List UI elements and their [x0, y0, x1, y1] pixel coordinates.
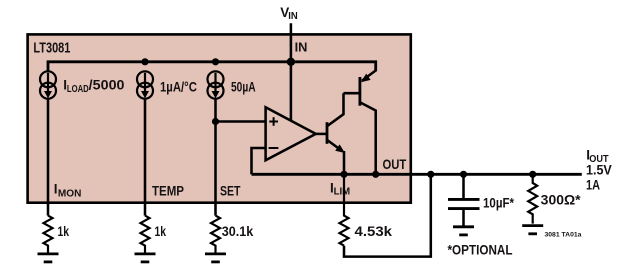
svg-text:10µF*: 10µF*	[483, 196, 515, 211]
wire IMON column	[47, 98, 50, 216]
wire SET column	[214, 98, 217, 216]
svg-text:IN: IN	[295, 39, 308, 54]
ground (R2)	[135, 254, 156, 262]
junction Q2 emitter / ILIM	[340, 171, 347, 178]
junction SET node	[212, 118, 219, 125]
junction top rail / I2	[141, 58, 148, 65]
svg-text:30.1k: 30.1k	[222, 224, 254, 239]
svg-text:50µA: 50µA	[231, 79, 256, 94]
svg-text:300Ω*: 300Ω*	[541, 193, 582, 208]
svg-text:*OPTIONAL: *OPTIONAL	[448, 243, 513, 258]
transistor Q2 NPN	[316, 93, 345, 174]
svg-text:4.53k: 4.53k	[355, 224, 393, 239]
pin ILIM label	[330, 181, 350, 198]
svg-text:1µA/°C: 1µA/°C	[160, 79, 197, 94]
node VIN label	[280, 5, 297, 22]
wire OUT rail	[252, 173, 582, 176]
wire op-amp inverting feedback	[252, 148, 266, 174]
label ILOAD/5000	[63, 78, 124, 95]
wire SET to op-amp + input	[216, 120, 266, 123]
resistor R1 1k (IMON)	[44, 216, 53, 253]
svg-text:1k: 1k	[155, 224, 167, 239]
current source I3 50µA	[208, 71, 224, 98]
junction top rail / I3	[212, 58, 219, 65]
resistor R4 4.53k (ILIM)	[340, 174, 349, 245]
wire top supply rail	[48, 62, 376, 72]
capacitor C1 10µF	[448, 174, 480, 225]
svg-text:TEMP: TEMP	[152, 184, 184, 199]
svg-text:OUT: OUT	[383, 157, 407, 172]
svg-text:I: I	[54, 182, 58, 197]
svg-text:LOAD: LOAD	[67, 83, 89, 95]
wire VIN vertical into IN pin and op-amp supply	[290, 23, 293, 120]
wire Q2 collector to Q1 base	[344, 92, 360, 95]
svg-text:LIM: LIM	[334, 186, 351, 198]
junction R5/OUT rail	[529, 171, 536, 178]
svg-text:3081 TA01a: 3081 TA01a	[545, 232, 582, 239]
svg-text:MON: MON	[58, 188, 82, 200]
node IOUT label	[586, 148, 609, 165]
junction OUT	[372, 171, 379, 178]
op-amp A1	[266, 107, 316, 160]
svg-text:1k: 1k	[58, 224, 70, 239]
current source I1 ILOAD/5000	[40, 71, 56, 98]
svg-text:SET: SET	[220, 184, 241, 199]
wire TEMP column	[144, 98, 147, 216]
resistor R3 30.1k (SET)	[211, 216, 220, 253]
IC body U1 LT3081	[28, 34, 411, 202]
wire R4 bottom to OUT rail	[344, 174, 431, 256]
current source I2 1µA/°C	[137, 71, 153, 98]
svg-text:/5000: /5000	[89, 78, 125, 93]
junction C1/OUT rail	[460, 171, 467, 178]
resistor R2 1k (TEMP)	[141, 216, 150, 253]
svg-text:LT3081: LT3081	[33, 40, 70, 56]
junction R4/OUT rail	[427, 171, 434, 178]
ground (R5)	[522, 226, 543, 234]
resistor R5 300Ω (output)	[528, 174, 537, 223]
ground (R3)	[205, 254, 226, 262]
ground (C1)	[453, 227, 474, 235]
svg-text:1.5V: 1.5V	[586, 163, 612, 178]
junction top rail / IN	[287, 58, 295, 66]
pin IMON label	[54, 182, 82, 200]
svg-text:IN: IN	[288, 10, 298, 22]
ground (R1)	[38, 254, 59, 262]
transistor Q1 PNP	[360, 71, 376, 175]
svg-text:1A: 1A	[586, 178, 600, 193]
